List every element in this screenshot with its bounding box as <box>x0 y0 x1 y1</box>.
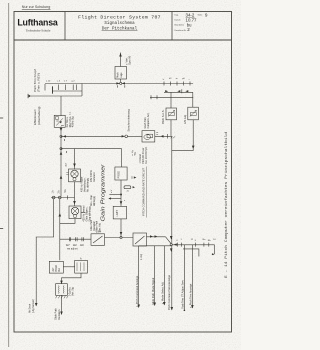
svg-text:Kap.: Kap. <box>175 14 180 16</box>
M2 bottom loop wire <box>60 219 75 224</box>
wire gyro to bus <box>120 79 122 84</box>
horizontal wire y148.6 <box>61 148 122 150</box>
mixer M1 symbol <box>71 170 78 177</box>
fold mark upper <box>0 117 3 119</box>
svg-text:PROG: PROG <box>118 171 121 178</box>
node X6 <box>120 194 122 196</box>
box B2 follow-up <box>142 131 155 142</box>
svg-text:HOLD: HOLD <box>56 265 58 272</box>
svg-text:(Trim u. REV): (Trim u. REV) <box>37 73 41 92</box>
right rail 3 <box>150 96 193 98</box>
svg-text:Pitch S.A.S.: Pitch S.A.S. <box>161 109 165 124</box>
tap circle C2 <box>52 196 55 199</box>
sync circle C1 <box>125 135 128 138</box>
wire down into PROG1 <box>121 149 123 167</box>
svg-text:z. Pitch Command Anzeige: z. Pitch Command Anzeige <box>135 275 139 307</box>
svg-text:Rel: Rel <box>59 268 61 272</box>
bus junction node X5 <box>120 82 122 84</box>
relay K1 contact symbol <box>56 117 59 120</box>
svg-text:Flight Director System 707: Flight Director System 707 <box>78 15 161 21</box>
svg-text:z. Pitch Trim Anzeige: z. Pitch Trim Anzeige <box>188 283 192 308</box>
input pin arrow <box>29 95 32 98</box>
hanging wire V3 <box>163 246 165 305</box>
svg-text:z. Adj: z. Adj <box>140 254 143 260</box>
svg-text:Lage: Lage <box>120 72 123 78</box>
wire A2 output <box>147 236 166 238</box>
output bus right <box>172 244 215 246</box>
wire down to relay <box>60 96 62 116</box>
svg-text:Vert. Sig: Vert. Sig <box>72 287 75 296</box>
scan page edge line <box>8 3 10 347</box>
connector pin vertical right <box>81 84 83 97</box>
svg-text:REV offen,: REV offen, <box>70 116 72 127</box>
svg-text:ber. 90/180 Hyd.: ber. 90/180 Hyd. <box>145 146 148 163</box>
node at pot A join <box>171 136 176 138</box>
double tick 2 <box>75 237 77 241</box>
svg-text:LIMIT: LIMIT <box>116 210 119 217</box>
junction X4 <box>170 244 172 246</box>
arrow up on left vertical <box>60 175 63 179</box>
flow arrows on output <box>150 235 153 238</box>
arrow up on tap2 wire <box>59 213 62 217</box>
pin tick marks on bus left end <box>44 84 46 91</box>
hook end dot <box>212 253 214 255</box>
underline for circuit label <box>146 167 148 218</box>
amp A2 box <box>133 233 147 246</box>
svg-text:abhängig: abhängig <box>93 195 96 206</box>
arrow down on pot B wire <box>192 146 195 150</box>
wire H1 to H2 <box>63 266 74 268</box>
wire tap2 down <box>59 199 61 260</box>
vertical gyro feed line <box>120 53 122 67</box>
wire rail to pot A <box>170 92 172 108</box>
svg-text:Flap abhängig: Flap abhängig <box>89 206 92 222</box>
title line 3 underline <box>102 30 138 32</box>
header divider before info cell <box>171 12 173 41</box>
hanging wire V2 <box>154 246 156 306</box>
mixer M1 box <box>69 169 81 182</box>
svg-text:Deviation: Deviation <box>93 220 96 231</box>
arrow below relay <box>60 127 62 137</box>
tick on rail 3 start <box>150 95 152 99</box>
fold mark lower <box>0 228 3 230</box>
svg-text:PITCH COMMAND AND RATE CIRCUIT: PITCH COMMAND AND RATE CIRCUIT <box>141 167 145 216</box>
wire branch down to mixer M1 <box>74 149 76 169</box>
pot tap horizontal y197.5 <box>51 197 75 199</box>
wire S1 down output <box>61 295 63 314</box>
svg-text:Wg.: Wg. <box>135 151 137 155</box>
svg-text:Pitch Command Servoanzeige: Pitch Command Servoanzeige <box>167 274 171 310</box>
paper background <box>0 0 241 350</box>
double tick 3 <box>81 237 83 241</box>
arrow into PROG2 <box>120 201 123 205</box>
mixer M2 symbol <box>71 207 78 214</box>
node X2 lower <box>60 148 62 150</box>
horizontal wire to amp A1 <box>60 238 91 240</box>
svg-text:Synchronisierung: Synchronisierung <box>127 109 131 132</box>
vertical main right line <box>171 136 173 245</box>
vertical main left line <box>60 136 62 196</box>
right rail 2 <box>164 91 193 93</box>
main horizontal to sync <box>61 135 125 137</box>
tick 11 on wire <box>167 134 169 139</box>
pot B box <box>188 107 199 120</box>
pot A box <box>166 108 177 120</box>
svg-text:Deviation: Deviation <box>58 309 61 320</box>
hanging wire V6 <box>191 245 193 308</box>
svg-text:Technische Schule: Technische Schule <box>26 28 51 32</box>
pot A symbol <box>168 110 175 116</box>
svg-text:E - 14 Pitch Computer verein: E - 14 Pitch Computer vereinfachtes Prin… <box>224 132 229 278</box>
node X1 <box>60 135 62 137</box>
hanging wire V4 <box>171 245 173 310</box>
svg-text:Lufthansa: Lufthansa <box>17 18 58 28</box>
svg-text:n.V: n.V <box>111 189 113 193</box>
svg-text:400Hz Sig.: 400Hz Sig. <box>73 116 75 128</box>
amp A1 box <box>91 234 105 246</box>
L stub below bus <box>183 249 199 257</box>
stub left lower with arrow <box>111 198 122 200</box>
M2 right stub <box>81 212 86 214</box>
HOLD box H1 <box>49 261 63 273</box>
svg-text:Bearbeiter: Bearbeiter <box>175 24 185 27</box>
stub left of node X6 <box>109 194 120 196</box>
wire H2 bottom loop <box>62 273 82 284</box>
sync arrow into circle <box>122 135 125 137</box>
svg-text:ALT: ALT <box>52 267 55 272</box>
wire connector lower rail <box>52 90 82 92</box>
double tick 1 <box>68 237 70 241</box>
svg-text:m: m <box>176 78 178 80</box>
svg-text:n.o.: n.o. <box>69 111 71 115</box>
connector pin ticks left <box>52 86 54 94</box>
svg-text:(Abschaltung): (Abschaltung) <box>37 106 41 125</box>
relay K1 box <box>54 115 65 127</box>
wire B2 to vertical bus <box>155 135 172 137</box>
wire PROG2 down to X3 <box>120 219 122 238</box>
arrow up on gyro feed <box>119 53 122 57</box>
bus top rail <box>45 83 193 85</box>
tick at 67.5 <box>67 196 69 200</box>
mixer M2 box <box>69 206 81 219</box>
svg-text:Glide Path Mode Signal: Glide Path Mode Signal <box>151 277 155 305</box>
wire PROG1 down <box>120 180 122 206</box>
svg-text:n. Vg: n. Vg <box>132 150 134 156</box>
svg-text:Seite: Seite <box>198 13 204 16</box>
svg-text:Korrektur-Nr.: Korrektur-Nr. <box>175 29 187 32</box>
hanging wire V1 <box>138 246 140 308</box>
svg-text:Pitch FD Power: Pitch FD Power <box>142 147 145 163</box>
arrow into M2 <box>73 201 76 205</box>
bus end hook down <box>214 245 216 253</box>
diagonal wire to junction X4 <box>166 237 172 244</box>
sensor box S1 <box>56 284 68 296</box>
pot B symbol <box>190 110 197 116</box>
svg-text:Gain Programmer: Gain Programmer <box>101 164 107 221</box>
svg-text:Compens. Adj: Compens. Adj <box>147 113 150 128</box>
arrows on rail 2 <box>165 90 168 92</box>
header divider after logo cell <box>64 12 66 41</box>
arrow on wire B2 <box>161 135 164 138</box>
svg-text:(-4g Sensor): (-4g Sensor) <box>32 299 35 313</box>
pot A output wire <box>170 120 172 137</box>
wire input to node <box>31 95 82 97</box>
scan noise texture <box>0 0 1 1</box>
gyro box B1 <box>115 67 127 80</box>
svg-text:Nur zur Schulung: Nur zur Schulung <box>22 5 51 9</box>
wire sync to box B2 <box>128 135 143 137</box>
bus pin ticks <box>177 243 179 247</box>
amp A2 symbol <box>135 236 145 244</box>
hanging wire V5 <box>183 245 185 310</box>
S1 hatching below <box>56 296 69 299</box>
S1 inner symbol <box>58 286 64 294</box>
box B2 symbol <box>144 135 151 140</box>
tap circle C3 <box>59 196 62 199</box>
svg-text:Referenz: Referenz <box>93 171 96 182</box>
svg-text:Datum: Datum <box>175 18 181 21</box>
svg-text:Gyro 90: Gyro 90 <box>128 55 132 65</box>
H2 inner marks <box>77 262 84 271</box>
svg-text:bei Trim u.: bei Trim u. <box>66 116 69 127</box>
arrow into M1 <box>73 164 76 168</box>
svg-text:z. Mode Select Adj: z. Mode Select Adj <box>160 282 164 304</box>
box H2 <box>75 260 88 273</box>
wire A1 to A2 <box>105 237 134 239</box>
amp A1 symbol <box>93 236 103 243</box>
PROG2 box <box>113 206 126 219</box>
svg-text:A/S Adj: A/S Adj <box>183 115 187 124</box>
svg-text:Signalschema: Signalschema <box>104 21 135 26</box>
svg-text:0-2g Acc: 0-2g Acc <box>69 286 72 296</box>
svg-text:Dev. Adj: Dev. Adj <box>99 223 102 232</box>
svg-text:D: D <box>131 177 133 180</box>
resistor pill right of node <box>124 186 131 189</box>
header separator line <box>14 39 232 41</box>
wire rail to pot B <box>192 92 194 107</box>
svg-text:res adj set: res adj set <box>67 248 78 251</box>
svg-text:1 V/Grad: 1 V/Grad <box>139 154 142 164</box>
PROG1 box <box>115 167 127 180</box>
left hanging bus <box>139 245 172 247</box>
wire M1 to lower node <box>74 182 76 206</box>
pot B output wire <box>172 120 193 151</box>
svg-text:Stab Trim ST Adjust Serv: Stab Trim ST Adjust Serv <box>180 279 184 309</box>
outer frame <box>14 12 232 333</box>
node X3 <box>120 236 122 238</box>
wire tap1 down to alt output <box>36 199 54 306</box>
dash marks right of B2 <box>156 133 158 135</box>
right rail pins on bus <box>163 82 165 86</box>
